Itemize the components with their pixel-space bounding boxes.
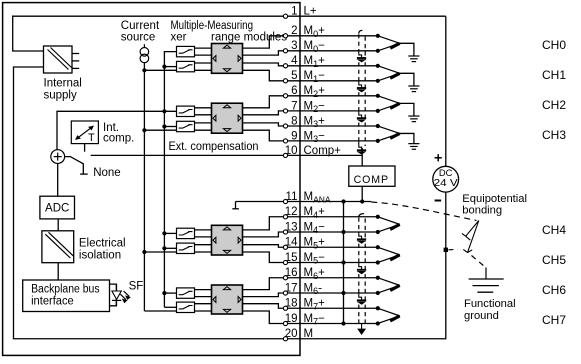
SF LED arrows bbox=[120, 291, 130, 303]
compensating junction ch2/ch3 bbox=[357, 111, 366, 122]
label CH4 bbox=[542, 223, 566, 237]
wire from selector to mux 3 bbox=[57, 111, 177, 150]
thermocouple CH3 bbox=[300, 124, 400, 143]
label Multiple-Measuring bbox=[171, 20, 254, 32]
multiplexer switch upper group 2 (CH2/CH3) bbox=[177, 106, 195, 116]
svg-text:CH4: CH4 bbox=[542, 223, 566, 237]
label Int. comp. bbox=[103, 122, 134, 144]
internal supply converter box bbox=[44, 46, 73, 73]
measuring range module group 2 (CH2/CH3) bbox=[212, 103, 243, 133]
int comp contact stub bbox=[84, 144, 86, 152]
wire CH0 to ground bbox=[400, 43, 414, 56]
svg-text:M: M bbox=[304, 328, 314, 340]
wires group 3 (CH4/CH5) bbox=[144, 217, 300, 263]
label CH1 bbox=[542, 68, 566, 82]
measuring range module group 3 (CH4/CH5) bbox=[212, 225, 243, 255]
terminal 13 bbox=[283, 221, 325, 235]
label CH2 bbox=[542, 98, 566, 112]
svg-text:T: T bbox=[88, 132, 95, 144]
dashed compensating line upper bbox=[359, 30, 365, 146]
svg-text:7: 7 bbox=[291, 100, 297, 112]
selector lead to ADC bbox=[57, 164, 59, 197]
svg-text:source: source bbox=[121, 31, 156, 43]
wire multiplexer feed rail B bbox=[163, 52, 165, 308]
wires group 2 (CH2/CH3) bbox=[144, 96, 300, 141]
svg-text:19: 19 bbox=[285, 313, 298, 325]
ground CH2 bbox=[408, 116, 419, 122]
ground CH0 bbox=[408, 56, 419, 62]
terminal 17 bbox=[283, 282, 322, 296]
svg-text:DC: DC bbox=[439, 168, 453, 178]
terminal 1 bbox=[283, 6, 316, 19]
wire current-source rail A bbox=[143, 63, 145, 311]
label CH7 bbox=[542, 313, 566, 327]
svg-text:Internal: Internal bbox=[44, 78, 82, 90]
thermocouple CH6 bbox=[300, 276, 400, 295]
label Electrical isolation bbox=[79, 238, 126, 262]
dashed link square to arrow bbox=[448, 248, 457, 250]
multiplexer switch lower group 1 (CH0/CH1) bbox=[177, 61, 195, 71]
svg-text:6: 6 bbox=[291, 85, 297, 97]
wire rail B corner to mux 1 bbox=[164, 51, 176, 54]
svg-text:2: 2 bbox=[291, 25, 297, 37]
wire rail B corner to mux 8 bbox=[164, 306, 176, 308]
DC 24V source circle bbox=[433, 166, 459, 192]
label None bbox=[93, 167, 121, 179]
dashed compensating line lower bbox=[359, 214, 365, 327]
thermocouple CH5 bbox=[300, 245, 400, 264]
svg-text:M5−: M5− bbox=[304, 252, 326, 266]
svg-text:10: 10 bbox=[285, 145, 298, 157]
ground CH1 bbox=[408, 86, 419, 92]
svg-text:12: 12 bbox=[285, 206, 298, 218]
label SF bbox=[129, 281, 144, 293]
thermocouple CH7 bbox=[300, 306, 400, 325]
label Ext. compensation bbox=[169, 139, 259, 153]
junction MANA t17 bbox=[341, 291, 345, 295]
wire CH1 to ground bbox=[400, 73, 414, 86]
compensating junction ch0/ch1 bbox=[357, 51, 366, 62]
svg-text:M2+: M2+ bbox=[304, 85, 326, 99]
svg-text:interface: interface bbox=[31, 296, 74, 308]
label Current source bbox=[121, 20, 160, 43]
ADC box bbox=[40, 196, 75, 219]
label + polarity bbox=[435, 154, 442, 161]
svg-text:xer: xer bbox=[171, 31, 187, 43]
terminal 10 bbox=[283, 145, 341, 158]
thermocouple CH4 bbox=[300, 215, 400, 234]
svg-text:comp.: comp. bbox=[103, 133, 134, 145]
svg-text:4: 4 bbox=[291, 55, 298, 67]
svg-text:11: 11 bbox=[286, 191, 298, 203]
wire rail B to mux 7 bbox=[162, 291, 176, 295]
svg-text:CH6: CH6 bbox=[542, 283, 566, 297]
terminal 2 bbox=[283, 25, 325, 39]
label Equipotential bonding bbox=[462, 193, 527, 216]
thermocouple CH2 bbox=[300, 94, 400, 113]
wire COMP to MANA bbox=[360, 186, 364, 203]
dashed curve MANA to bonding bbox=[371, 202, 476, 221]
svg-text:M3+: M3+ bbox=[304, 115, 326, 129]
wire Comp+ terminal 10 bbox=[91, 154, 363, 156]
wire L+ rail from terminal 1 to DC supply and internal supply leg bbox=[13, 16, 446, 166]
svg-text:M4−: M4− bbox=[304, 221, 326, 235]
multiplexer switch lower group 3 (CH4/CH5) bbox=[177, 243, 195, 253]
svg-text:COMP: COMP bbox=[354, 174, 389, 186]
terminal 8 bbox=[283, 115, 325, 129]
svg-text:CH3: CH3 bbox=[542, 128, 566, 142]
svg-text:isolation: isolation bbox=[79, 250, 121, 262]
multiplexer switch upper group 3 (CH4/CH5) bbox=[177, 228, 195, 238]
compensating junction ch1/ch2 bbox=[357, 81, 366, 92]
label Functional ground bbox=[464, 298, 516, 322]
svg-text:bonding: bonding bbox=[462, 204, 502, 216]
label Internal supply bbox=[44, 78, 82, 102]
svg-text:M2−: M2− bbox=[304, 100, 326, 114]
junction rail B mux3 bbox=[162, 109, 166, 113]
svg-text:14: 14 bbox=[285, 237, 298, 249]
compensating line end arrow bbox=[358, 324, 365, 335]
svg-text:M6-: M6- bbox=[304, 282, 323, 296]
junction square on DC rail bbox=[444, 248, 448, 252]
compensating junction ch4/ch5 bbox=[357, 232, 366, 243]
svg-text:9: 9 bbox=[291, 130, 297, 142]
svg-text:Ext. compensation: Ext. compensation bbox=[169, 139, 259, 153]
functional ground symbol bbox=[469, 268, 504, 293]
multiplexer switch upper group 1 (CH0/CH1) bbox=[177, 46, 195, 56]
svg-text:M3−: M3− bbox=[304, 130, 326, 144]
multiplexer switch lower group 2 (CH2/CH3) bbox=[177, 121, 195, 131]
terminal 7 bbox=[283, 100, 325, 114]
terminal 14 bbox=[283, 237, 325, 251]
equipotential bonding arrow bbox=[462, 221, 479, 253]
measuring range module group 1 (CH0/CH1) bbox=[212, 44, 243, 74]
dashed link arrow to ground bbox=[472, 256, 485, 267]
ground CH3 bbox=[408, 144, 419, 150]
terminal 12 bbox=[283, 206, 325, 220]
svg-text:None: None bbox=[93, 167, 121, 179]
svg-text:13: 13 bbox=[285, 221, 298, 233]
svg-text:17: 17 bbox=[285, 282, 298, 294]
compensating junction ch6/ch7 bbox=[357, 293, 366, 304]
measuring range module group 4 (CH6/CH7) bbox=[212, 285, 243, 314]
label CH3 bbox=[542, 128, 566, 142]
module enclosure frame bbox=[3, 3, 300, 356]
label CH6 bbox=[542, 283, 566, 297]
wire M rail (terminal 20) with left leg to internal supply bbox=[14, 67, 446, 339]
wire isolation to backplane bbox=[57, 263, 59, 280]
wire CH3 to ground bbox=[400, 133, 414, 143]
junction rail A group 3 bbox=[142, 250, 146, 254]
label - polarity bbox=[435, 200, 442, 202]
svg-text:M7+: M7+ bbox=[304, 298, 326, 312]
terminal 6 bbox=[283, 85, 325, 99]
terminal 16 bbox=[283, 267, 325, 281]
svg-text:Backplane bus: Backplane bus bbox=[31, 283, 100, 295]
svg-text:M1−: M1− bbox=[304, 70, 326, 84]
svg-text:M1+: M1+ bbox=[304, 55, 326, 69]
selector circle + bbox=[51, 150, 65, 164]
backplane bus interface box bbox=[23, 280, 110, 312]
terminal 9 bbox=[283, 130, 325, 144]
svg-text:Functional: Functional bbox=[464, 298, 516, 310]
SF LED bracket bbox=[110, 284, 117, 306]
terminal 20 bbox=[283, 328, 313, 341]
junction MANA t19 bbox=[341, 321, 345, 325]
svg-text:3: 3 bbox=[291, 40, 297, 52]
label range modules bbox=[211, 31, 287, 43]
svg-text:MANA: MANA bbox=[304, 191, 331, 205]
terminal 15 bbox=[283, 252, 325, 266]
svg-text:5: 5 bbox=[291, 70, 297, 82]
multiplexer switch upper group 4 (CH6/CH7) bbox=[177, 288, 195, 298]
wire MANA terminal 11 bbox=[232, 202, 371, 209]
svg-text:M0−: M0− bbox=[304, 40, 326, 54]
thermocouple CH1 bbox=[300, 64, 400, 83]
wires group 1 (CH0/CH1) bbox=[144, 36, 300, 81]
current source I symbol bbox=[140, 44, 149, 63]
svg-text:CH5: CH5 bbox=[542, 253, 566, 267]
COMP box bbox=[349, 166, 395, 186]
thermocouple CH0 bbox=[300, 34, 400, 53]
junction MANA t15 bbox=[341, 260, 345, 264]
svg-text:24 V: 24 V bbox=[434, 178, 458, 189]
terminal 5 bbox=[283, 70, 325, 84]
svg-text:20: 20 bbox=[285, 328, 298, 340]
junction rail A group 2 bbox=[142, 128, 146, 132]
SF LED diode bbox=[112, 284, 121, 306]
svg-text:Current: Current bbox=[121, 20, 160, 32]
terminal 4 bbox=[283, 55, 325, 69]
svg-text:M6+: M6+ bbox=[304, 267, 326, 281]
junction MANA t13 bbox=[341, 230, 345, 234]
svg-text:M0+: M0+ bbox=[304, 25, 326, 39]
compensating junction at Comp+ bbox=[357, 141, 366, 154]
label CH5 bbox=[542, 253, 566, 267]
svg-text:18: 18 bbox=[285, 298, 298, 310]
svg-text:8: 8 bbox=[291, 115, 297, 127]
selector blade to None bbox=[65, 157, 88, 175]
wires group 4 (CH6/CH7) bbox=[144, 278, 300, 324]
svg-text:1: 1 bbox=[291, 6, 297, 18]
junction MANA t11 bbox=[341, 199, 345, 203]
svg-text:CH7: CH7 bbox=[542, 313, 566, 327]
multiplexer switch lower group 4 (CH6/CH7) bbox=[177, 302, 195, 312]
internal supply output pins bbox=[72, 54, 79, 69]
svg-text:Comp+: Comp+ bbox=[304, 145, 342, 157]
wire CH2 to ground bbox=[400, 103, 414, 116]
wire rail B to mux 4 bbox=[162, 124, 176, 128]
label xer bbox=[171, 31, 187, 43]
electrical isolation box bbox=[42, 231, 74, 263]
svg-text:range modules: range modules bbox=[211, 31, 287, 43]
svg-text:CH1: CH1 bbox=[542, 68, 566, 82]
svg-text:ADC: ADC bbox=[45, 203, 69, 215]
MANA bus vertical bbox=[343, 202, 345, 324]
wire ADC to isolation bbox=[57, 219, 59, 231]
svg-text:supply: supply bbox=[44, 90, 77, 102]
svg-text:Multiple-Measuring: Multiple-Measuring bbox=[171, 20, 254, 32]
label CH0 bbox=[542, 38, 566, 52]
wire rail B to mux 5 bbox=[162, 231, 176, 235]
svg-text:M4+: M4+ bbox=[304, 206, 326, 220]
svg-text:SF: SF bbox=[129, 281, 144, 293]
svg-text:15: 15 bbox=[285, 252, 298, 264]
svg-text:L+: L+ bbox=[304, 6, 317, 18]
wire rail B to mux 6 bbox=[162, 246, 176, 250]
terminal 11 bbox=[283, 191, 331, 205]
svg-text:CH2: CH2 bbox=[542, 98, 566, 112]
wire rail B to mux 2 bbox=[162, 65, 176, 69]
svg-text:Electrical: Electrical bbox=[79, 238, 126, 250]
svg-text:ground: ground bbox=[464, 310, 499, 322]
svg-text:16: 16 bbox=[285, 267, 298, 279]
terminal 3 bbox=[283, 40, 325, 54]
svg-text:CH0: CH0 bbox=[542, 38, 566, 52]
int comp box bbox=[71, 121, 98, 144]
junction rail A top bbox=[142, 68, 146, 72]
svg-text:M7−: M7− bbox=[304, 313, 326, 327]
compensating junction ch5/ch6 bbox=[357, 263, 366, 274]
wire comp riser to COMP box bbox=[361, 148, 363, 166]
terminal 18 bbox=[283, 298, 325, 312]
terminal 19 bbox=[283, 313, 325, 327]
svg-text:M5+: M5+ bbox=[304, 237, 326, 251]
